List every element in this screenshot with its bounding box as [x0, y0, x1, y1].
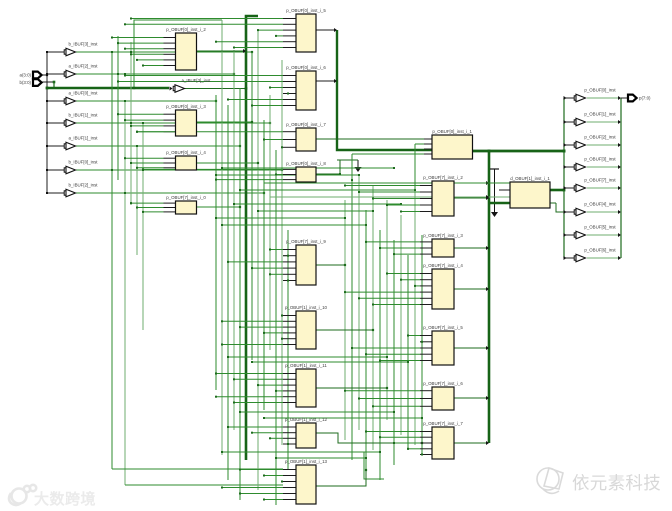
wire feeder: [234, 378, 283, 380]
wire i_3 output: [197, 121, 253, 123]
wire input stub: [164, 37, 176, 39]
junction i_5 output onto trunk: [334, 28, 337, 32]
wire OBUF output net: [587, 144, 621, 146]
junction: [215, 100, 217, 102]
wire feeder: [420, 341, 422, 343]
svg-text:b_IBUF[1]_inst: b_IBUF[1]_inst: [68, 112, 98, 117]
wire input stub: [420, 353, 432, 355]
junction: [618, 120, 621, 124]
wire i_9 output: [316, 264, 345, 266]
wire feeder: [408, 335, 420, 337]
junction: [393, 167, 395, 169]
wire input stub: [164, 65, 176, 67]
wire feeder: [125, 23, 283, 25]
wire vertical net x=228: [227, 105, 229, 480]
wire feeder: [216, 179, 283, 181]
junction: [215, 396, 217, 398]
junction: [136, 167, 138, 169]
wire OBUF output net: [587, 121, 621, 123]
junction: [136, 145, 138, 147]
wire input stub: [283, 75, 296, 77]
svg-text:p_OBUF[7]_inst_i_4: p_OBUF[7]_inst_i_4: [423, 263, 463, 268]
junction: [233, 378, 235, 380]
wire OBUF input stub: [564, 144, 575, 146]
junction: [407, 361, 409, 363]
svg-text:p_OBUF[0]_inst_i_2: p_OBUF[0]_inst_i_2: [166, 27, 206, 32]
wire feeder: [264, 499, 283, 501]
LUT p_OBUF[1]_inst_i_10: [285, 305, 328, 349]
wire feeder: [137, 59, 164, 61]
wire feeder: [240, 326, 283, 328]
junction: [215, 174, 217, 176]
junction: [372, 405, 374, 407]
wire input stub: [283, 255, 296, 257]
svg-text:b_IBUF[0]_inst: b_IBUF[0]_inst: [68, 159, 98, 164]
wire feeder: [270, 273, 283, 275]
wire OBUF input stub: [564, 121, 575, 123]
wire input stub: [420, 448, 432, 450]
junction: [386, 204, 388, 206]
wire thick trunk x=337 to i_1: [337, 30, 432, 150]
junction: [130, 162, 132, 164]
junction: [130, 51, 132, 53]
junction arrow on trunk: [486, 246, 489, 250]
junction: [618, 233, 621, 237]
junction: [564, 96, 567, 100]
junction: [281, 481, 283, 483]
wire cross net y=190: [240, 189, 415, 191]
wire feeder: [380, 360, 420, 362]
wire feeder: [131, 18, 283, 20]
junction: [414, 189, 416, 191]
junction: [233, 47, 235, 49]
buffer p_OBUF[7]_inst: [574, 177, 616, 191]
wire input stub: [283, 99, 296, 101]
junction: [221, 451, 223, 453]
wire i_7 output to i_1: [316, 138, 432, 140]
svg-text:p_OBUF[1]_inst_i_10: p_OBUF[1]_inst_i_10: [285, 305, 328, 310]
wire OBUF input bus: [563, 98, 565, 258]
junction arrow on trunk: [486, 396, 489, 400]
junction: [239, 469, 241, 471]
junction arrow on trunk: [486, 196, 489, 200]
wire vertical net x=143: [142, 123, 144, 330]
wire input stub: [420, 341, 432, 343]
junction b-port: [53, 81, 56, 84]
wire input stub: [283, 267, 296, 269]
wire input stub: [420, 279, 432, 281]
LUT p_OBUF[7]_inst_i_3: [423, 233, 463, 257]
node a input wire: [42, 74, 48, 76]
junction: [142, 169, 144, 171]
wire input stub: [420, 454, 432, 456]
wire feeder: [234, 47, 283, 49]
junction: [221, 224, 223, 226]
wire feeder: [282, 338, 283, 340]
wire vertical net x=216: [215, 95, 217, 390]
junction: [281, 146, 283, 148]
wire IBUF output net: [76, 100, 216, 102]
junction: [564, 233, 567, 237]
junction: [275, 457, 277, 459]
wire feeder: [359, 191, 420, 193]
wire cross net y=362: [252, 361, 408, 363]
LUT p_OBUF[1]_inst_i_12: [285, 417, 328, 448]
wire input stub: [164, 113, 176, 115]
wire vertical net x=352: [351, 180, 353, 460]
junction: [263, 499, 265, 501]
junction input bus: [46, 169, 48, 171]
wire OBUF input stub: [564, 187, 575, 189]
junction: [136, 207, 138, 209]
junction: [239, 493, 241, 495]
wire a_IBUF[3] output net: [185, 88, 247, 90]
junction: [564, 210, 567, 214]
junction: [365, 224, 367, 226]
junction: [281, 169, 283, 171]
wire feeder: [276, 35, 283, 37]
junction: [142, 122, 144, 124]
wire b net drop: [53, 82, 55, 88]
svg-text:p_OBUF[5]_inst: p_OBUF[5]_inst: [584, 224, 616, 229]
junction: [221, 344, 223, 346]
wire i_10 output: [316, 329, 373, 331]
junction: [251, 121, 253, 123]
wire input stub: [283, 81, 296, 83]
junction: [142, 65, 144, 67]
junction input bus: [46, 192, 48, 194]
junction: [358, 398, 360, 400]
wire OBUF output bus: [620, 98, 622, 258]
wire input stub: [283, 396, 296, 398]
junction: [564, 143, 567, 147]
wire feeder: [137, 167, 164, 169]
wire output to trunk: [454, 347, 486, 349]
wire input stub: [283, 378, 296, 380]
wire feeder: [387, 273, 420, 275]
wire thick trunk x=246: [246, 16, 258, 460]
junction: [124, 23, 126, 25]
wire feeder: [283, 280, 288, 282]
wire input stub: [283, 47, 296, 49]
junction: [221, 167, 223, 169]
wire IBUF output net: [76, 192, 264, 194]
wire input stub: [164, 125, 176, 127]
wire input stub: [283, 35, 296, 37]
junction: [618, 186, 621, 190]
wire input stub: [283, 373, 296, 375]
wire cross net y=357: [228, 356, 387, 358]
wire input stub: [420, 291, 432, 293]
wire i_2 output: [197, 50, 247, 52]
wire input stub: [164, 167, 176, 169]
wire IBUF output net: [76, 73, 234, 75]
wire feeder: [264, 332, 283, 334]
svg-text:p_OBUF[1]_inst: p_OBUF[1]_inst: [584, 111, 616, 116]
svg-text:p_OBUF[0]_inst_i_1: p_OBUF[0]_inst_i_1: [432, 129, 472, 134]
wire input stub: [164, 157, 176, 159]
wire feeder: [143, 211, 164, 213]
svg-text:p_OBUF[0]_inst_i_4: p_OBUF[0]_inst_i_4: [166, 150, 206, 155]
junction: [372, 210, 374, 212]
wire vertical net x=125: [124, 101, 126, 485]
wire input stub: [420, 185, 432, 187]
wire feeder: [408, 448, 420, 450]
svg-text:p_OBUF[0]_inst_i_7: p_OBUF[0]_inst_i_7: [286, 122, 326, 127]
wire vertical net x=112: [111, 52, 113, 469]
LUT p_OBUF[0]_inst_i_2: [166, 27, 206, 70]
junction: [344, 291, 346, 293]
junction: [386, 387, 388, 389]
junction: [227, 356, 229, 358]
junction arrow on trunk: [486, 346, 489, 350]
buffer p_OBUF[6]_inst: [574, 247, 616, 261]
LUT p_OBUF[7]_inst_i_4: [423, 263, 463, 309]
wire feeder: [401, 279, 420, 281]
wire input stub: [283, 249, 296, 251]
junction: [414, 285, 416, 287]
wire feeder: [276, 390, 283, 392]
junction: [339, 173, 341, 175]
junction: [233, 203, 235, 205]
wire i_1 feeder: [415, 143, 424, 145]
junction: [287, 280, 289, 282]
junction trunk top: [488, 150, 491, 153]
junction: [130, 125, 132, 127]
junction: [281, 315, 283, 317]
svg-text:p_OBUF[7]_inst: p_OBUF[7]_inst: [584, 177, 616, 182]
wire feeder: [264, 475, 283, 477]
wire input stub: [283, 87, 296, 89]
wire feeder: [131, 125, 164, 127]
junction: [215, 217, 217, 219]
wire input stub: [283, 326, 296, 328]
wire vertical net x=394: [393, 240, 395, 465]
wire long net to i_13: [112, 468, 283, 470]
junction: [365, 469, 367, 471]
wire input stub: [164, 59, 176, 61]
junction: [221, 487, 223, 489]
wire input bus vertical: [46, 52, 48, 193]
wire input stub: [283, 29, 296, 31]
wire input stub: [283, 332, 296, 334]
wire OBUF output net: [587, 234, 621, 236]
wire vertical net x=264: [263, 120, 265, 410]
wire input stub: [283, 23, 296, 25]
junction: [564, 256, 567, 260]
wire input stub: [283, 131, 296, 133]
wire i_1 input stub: [424, 153, 432, 155]
wire input stub: [283, 18, 296, 20]
wire IBUF input stub: [47, 51, 65, 53]
wire vertical net x=270: [269, 95, 271, 350]
wire feeder: [216, 396, 283, 398]
LUT p_OBUF[7]_inst_i_2: [423, 175, 463, 216]
wire feeder: [359, 297, 420, 299]
wire feeder: [125, 75, 283, 77]
junction: [400, 203, 402, 205]
wire input stub: [420, 204, 432, 206]
junction: [263, 332, 265, 334]
wire to output port p: [621, 97, 628, 99]
wire feeder: [125, 157, 164, 159]
wire feeder: [380, 247, 420, 249]
LUT p_OBUF[1]_inst_i_13: [285, 459, 328, 504]
junction: [393, 411, 395, 413]
wire d-block output 2 route: [556, 203, 564, 212]
wire feeder: [125, 119, 164, 121]
buffer p_OBUF[1]_inst: [574, 111, 616, 125]
svg-text:p_OBUF[0]_inst_i_5: p_OBUF[0]_inst_i_5: [286, 8, 326, 13]
wire input stub: [283, 146, 296, 148]
junction: [400, 211, 402, 213]
junction: [251, 361, 253, 363]
svg-text:p_OBUF[3]_inst: p_OBUF[3]_inst: [584, 156, 616, 161]
junction: [239, 206, 241, 208]
LUT p_OBUF[1]_inst_i_11: [285, 363, 327, 407]
wire vertical net x=345: [344, 200, 346, 440]
junction on trunk: [245, 87, 248, 90]
buffer p_OBUF[4]_inst: [574, 201, 616, 215]
wire feeder: [137, 207, 164, 209]
wire input stub: [420, 241, 432, 243]
wire output to trunk: [454, 197, 486, 199]
svg-text:p(7:0): p(7:0): [639, 96, 651, 101]
junction: [344, 217, 346, 219]
wire feeder: [264, 139, 283, 141]
wire feeder: [283, 93, 288, 95]
junction: [421, 454, 423, 456]
wire input stub: [420, 360, 432, 362]
junction: [372, 304, 374, 306]
wire input stub: [283, 179, 296, 181]
wire top-left net: [134, 20, 222, 88]
wire input stub: [283, 390, 296, 392]
svg-text:p_OBUF[7]_inst_i_6: p_OBUF[7]_inst_i_6: [423, 381, 463, 386]
wire vertical net x=415: [414, 190, 416, 445]
wire feeder: [222, 344, 283, 346]
wire i_11 output: [316, 387, 387, 389]
junction: [365, 241, 367, 243]
wire feeder: [270, 87, 283, 89]
wire i_8 output: [316, 173, 340, 175]
junction arrow on trunk: [486, 287, 489, 291]
wire input stub: [164, 211, 176, 213]
junction a-port: [46, 74, 48, 76]
wire thick d-block input y=203: [489, 202, 510, 205]
junction: [111, 37, 113, 39]
decorative watermark logo bottom-left: [9, 485, 36, 505]
LUT p_OBUF[0]_inst_i_1: [432, 129, 473, 159]
svg-text:依元素科技: 依元素科技: [572, 473, 661, 493]
wire cross net y=204: [234, 203, 401, 205]
junction: [124, 100, 126, 102]
junction: [263, 192, 265, 194]
junction arrow on trunk: [486, 181, 489, 185]
junction: [117, 42, 119, 44]
junction: [344, 390, 346, 392]
wire IBUF output net: [76, 51, 252, 53]
junction: [365, 353, 367, 355]
junction: [393, 253, 395, 255]
junction on thick net: [133, 87, 135, 89]
junction: [281, 338, 283, 340]
junction: [239, 326, 241, 328]
junction: [379, 451, 381, 453]
wire feeder: [387, 204, 420, 206]
wire input stub: [420, 273, 432, 275]
wire input stub: [164, 207, 176, 209]
wire input stub: [283, 493, 296, 495]
wire input stub: [283, 41, 296, 43]
wire input stub: [283, 344, 296, 346]
junction: [618, 143, 621, 147]
junction: [251, 267, 253, 269]
buffer p_OBUF[0]_inst: [574, 87, 616, 101]
wire vertical net x=373: [372, 185, 374, 450]
wire feeder: [228, 261, 283, 263]
wire feeder: [240, 493, 283, 495]
junction: [263, 139, 265, 141]
svg-text:大数跨境: 大数跨境: [34, 490, 96, 508]
wire input stub: [283, 384, 296, 386]
wire feeder: [234, 402, 283, 404]
wire input stub: [164, 119, 176, 121]
wire vertical net x=118: [117, 36, 119, 180]
svg-text:p_OBUF[0]_inst_i_6: p_OBUF[0]_inst_i_6: [286, 65, 326, 70]
wire input stub: [420, 191, 432, 193]
wire i_12 output route: [316, 433, 422, 443]
wire input stub: [283, 105, 296, 107]
wire i_13 output route: [316, 470, 366, 486]
wire i_1 feeder drop: [351, 154, 353, 180]
wire input stub: [283, 443, 296, 445]
junction: [215, 373, 217, 375]
junction: [124, 157, 126, 159]
wire cross net y=218: [216, 217, 345, 219]
junction: [351, 179, 353, 181]
junction: [233, 73, 235, 75]
wire feeder: [125, 48, 164, 50]
wire vertical net x=222: [221, 20, 223, 455]
junction: [379, 436, 381, 438]
LUT p_OBUF[7]_inst_i_5: [423, 325, 463, 365]
wire input stub: [420, 253, 432, 255]
wire input stub: [420, 442, 432, 444]
svg-text:p_OBUF[4]_inst: p_OBUF[4]_inst: [584, 201, 616, 206]
junction: [124, 73, 126, 75]
wire input stub: [283, 487, 296, 489]
LUT p_OBUF[0]_inst_i_3: [166, 104, 206, 136]
wire feeder: [131, 53, 164, 55]
wire feeder: [420, 454, 422, 456]
wire feeder: [228, 426, 283, 428]
wire feeder: [282, 481, 283, 483]
svg-text:p_OBUF[1]_inst_i_11: p_OBUF[1]_inst_i_11: [285, 363, 327, 368]
wire cross net y=458: [276, 457, 366, 459]
wire input stub: [164, 162, 176, 164]
wire i_0 output: [197, 206, 241, 208]
wire feeder: [366, 353, 420, 355]
wire input stub: [283, 338, 296, 340]
svg-text:p_OBUF[6]_inst: p_OBUF[6]_inst: [584, 247, 616, 252]
wire thick d-block output: [550, 189, 564, 192]
wire feeder: [216, 41, 283, 43]
junction: [344, 264, 346, 266]
wire input stub: [283, 469, 296, 471]
wire vertical net x=240: [239, 88, 241, 500]
buffer a_IBUF[0]_inst: [64, 90, 98, 104]
